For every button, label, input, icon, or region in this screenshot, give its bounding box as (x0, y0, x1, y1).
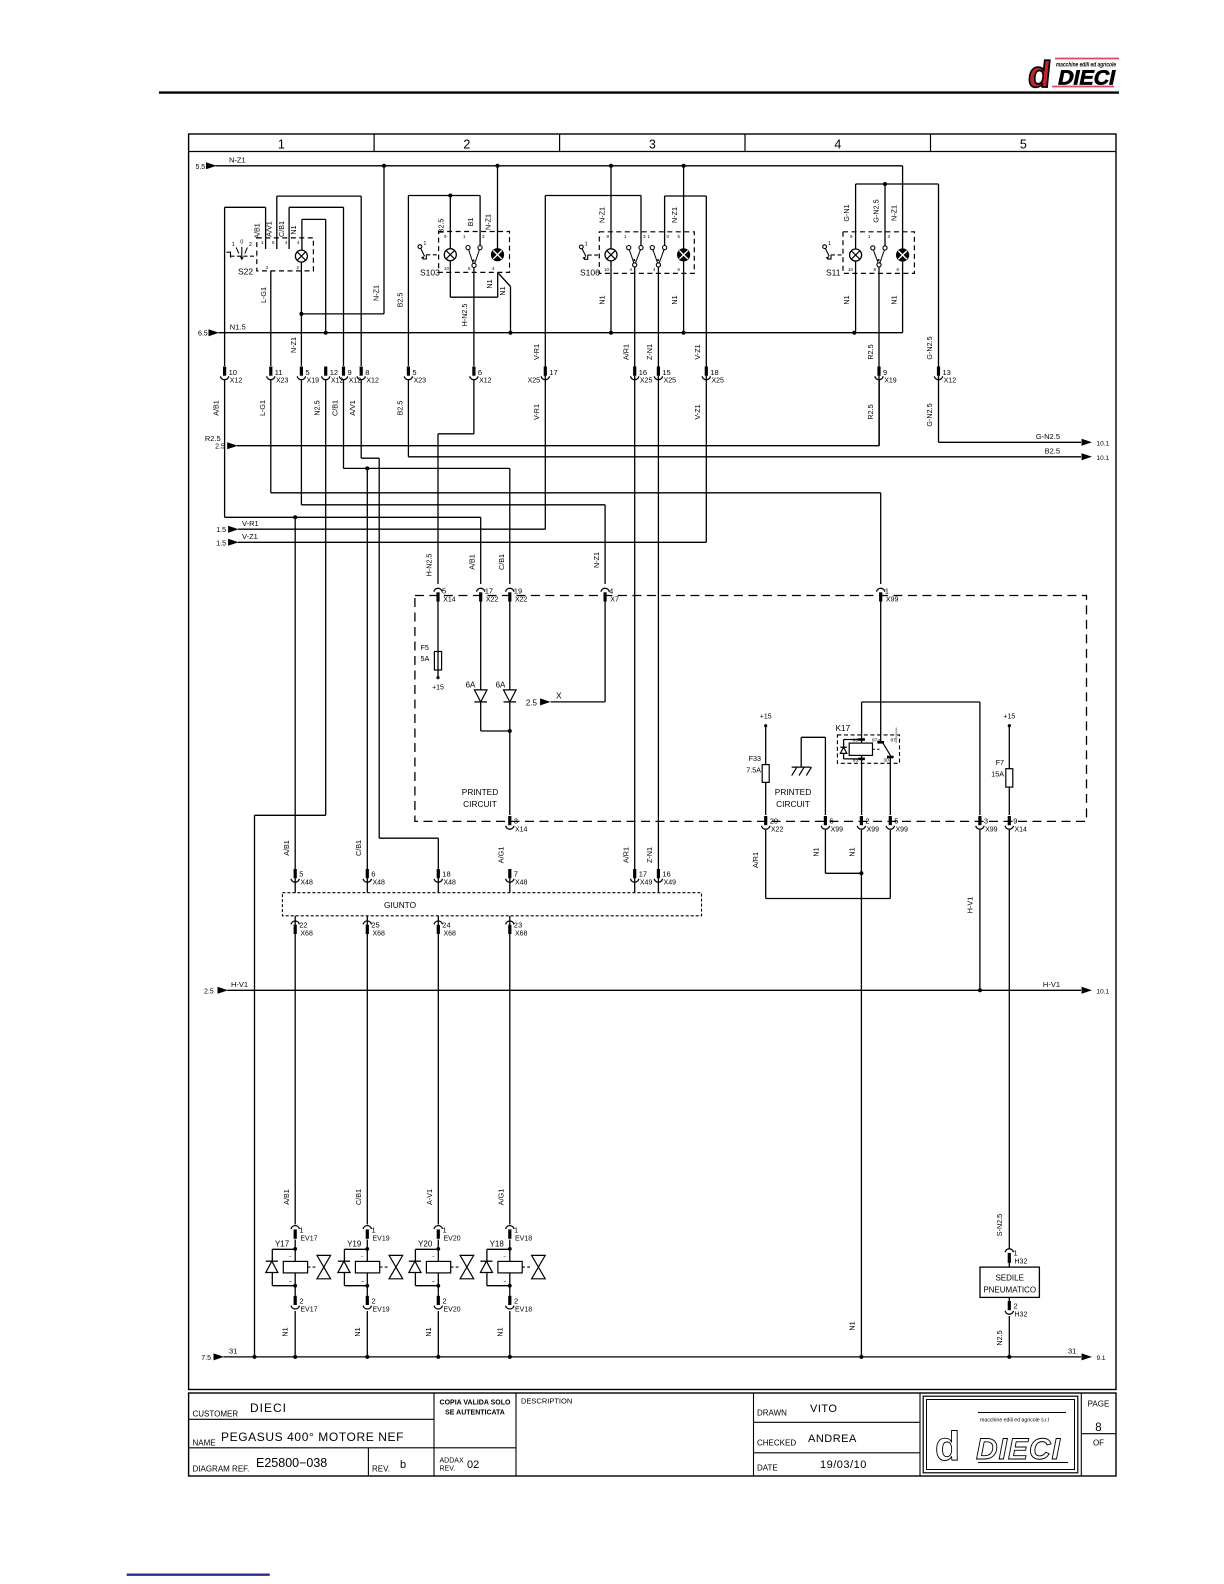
svg-text:X14: X14 (443, 597, 456, 604)
svg-text:N1: N1 (353, 1327, 362, 1336)
svg-text:SEDILE: SEDILE (995, 1273, 1023, 1282)
svg-text:X49: X49 (664, 880, 677, 887)
svg-text:6A: 6A (496, 681, 506, 690)
svg-text:B1: B1 (466, 218, 475, 227)
svg-text:A/B1: A/B1 (253, 223, 262, 239)
svg-text:17: 17 (549, 368, 557, 377)
changeover contact S11 (871, 246, 875, 250)
svg-text:DATE: DATE (757, 1464, 778, 1473)
title block addax cell (440, 1458, 480, 1473)
svg-text:−: − (503, 1254, 506, 1260)
svg-text:1: 1 (828, 241, 831, 247)
connector X68 pin 25 (GIUNTO bottom) (363, 916, 385, 938)
svg-text:N1: N1 (848, 847, 857, 856)
S103 toggle switch (418, 245, 422, 249)
node diode junction (508, 729, 512, 733)
connector EV19 pin 1 (363, 1226, 390, 1243)
svg-text:1: 1 (443, 1226, 447, 1235)
svg-text:1: 1 (1014, 1249, 1018, 1258)
svg-text:6A: 6A (466, 681, 476, 690)
wire N1 from S11 lamp1 (855, 261, 857, 333)
svg-text:1.5: 1.5 (216, 540, 226, 547)
wire C/B1 into diode (509, 602, 511, 690)
lamp in S106 (black) (678, 249, 690, 261)
svg-text:PEGASUS 400° MOTORE NEF: PEGASUS 400° MOTORE NEF (221, 1430, 404, 1444)
svg-text:9.1: 9.1 (1097, 1355, 1106, 1362)
svg-text:E25800−038: E25800−038 (256, 1456, 327, 1470)
svg-text:DESCRIPTION: DESCRIPTION (521, 1397, 572, 1406)
svg-text:B2.5: B2.5 (1045, 447, 1060, 456)
wire L-G1 mid (271, 380, 881, 584)
svg-text:X7: X7 (610, 597, 619, 604)
svg-text:X12: X12 (230, 378, 243, 385)
lamp in S103 (black) (492, 249, 504, 261)
switch S106 dashed box (599, 232, 694, 274)
svg-text:ANDREA: ANDREA (808, 1433, 857, 1445)
svg-text:−: − (432, 1254, 435, 1260)
wire B2.5 mid (407, 380, 409, 457)
svg-text:Y19: Y19 (347, 1240, 362, 1249)
wire N-Z1 into S106 lamp1 (610, 166, 612, 249)
svg-text:6: 6 (371, 870, 375, 879)
svg-text:N1: N1 (498, 286, 507, 295)
svg-text:PRINTED: PRINTED (462, 787, 498, 797)
svg-text:Y20: Y20 (418, 1240, 433, 1249)
S11 toggle switch (823, 245, 827, 249)
svg-text:13: 13 (943, 368, 951, 377)
svg-text:N-Z1: N-Z1 (372, 285, 381, 301)
connector X12 pin 13 (934, 367, 956, 385)
svg-text:S22: S22 (238, 267, 253, 277)
node B2.5 S103 (448, 194, 452, 198)
svg-text:NAME: NAME (193, 1439, 216, 1448)
svg-text:2: 2 (443, 1297, 447, 1306)
node on N1.5 bus at S106 lamp2 (682, 331, 686, 335)
wire N-Z1 into S103 black lamp (497, 166, 499, 249)
svg-text:2: 2 (299, 1297, 303, 1306)
svg-text:+15: +15 (432, 685, 444, 692)
terminal +15 above F33 (760, 714, 772, 728)
svg-text:X68: X68 (444, 931, 457, 938)
svg-text:G-N2.5: G-N2.5 (925, 403, 934, 426)
connector X99 pin 5 (PC bottom) (886, 816, 908, 834)
ground (printed circuit) (792, 737, 826, 815)
svg-text:V-Z1: V-Z1 (693, 344, 702, 359)
svg-text:3: 3 (649, 138, 656, 152)
relay K17 flyback diode (840, 740, 861, 759)
wire N1 from EV20 to bus 31 (437, 1311, 439, 1357)
title block frame (189, 1393, 1116, 1476)
svg-text:Z-N1: Z-N1 (645, 847, 654, 863)
node N1 junction under relay (859, 871, 863, 875)
connector EV19 pin 2 (363, 1286, 390, 1314)
lamp in S11 (black) (897, 249, 909, 261)
svg-text:18: 18 (710, 368, 718, 377)
svg-text:V-R1: V-R1 (242, 519, 259, 528)
svg-text:R2.5: R2.5 (866, 404, 875, 419)
wire H-V1 X99-3 to bus (979, 830, 981, 990)
connector X49 pin 17 (GIUNTO top) (631, 869, 653, 893)
svg-text:N1.5: N1.5 (230, 323, 246, 332)
wire R2.5 from S11 contact (878, 268, 880, 446)
node on bus 31 at N2.5 sedile (1007, 1355, 1011, 1359)
svg-text:H-V1: H-V1 (231, 980, 248, 989)
svg-text:N1: N1 (495, 1327, 504, 1336)
svg-text:CUSTOMER: CUSTOMER (193, 1410, 239, 1419)
relay K17 pin numbers (853, 737, 897, 763)
switch S11 dashed box (843, 232, 914, 274)
svg-text:VITO: VITO (810, 1403, 837, 1415)
svg-text:X19: X19 (884, 378, 897, 385)
svg-text:Z-N1: Z-N1 (645, 344, 654, 360)
S22 pin numbers (261, 240, 300, 270)
wire N1 S103 lamps (450, 261, 510, 333)
svg-text:OF: OF (1093, 1439, 1104, 1448)
svg-text:16: 16 (662, 870, 670, 879)
svg-text:X19: X19 (307, 378, 320, 385)
svg-text:18: 18 (442, 870, 450, 879)
svg-text:PRINTED: PRINTED (775, 787, 811, 797)
svg-text:N-Z1: N-Z1 (289, 337, 298, 353)
svg-text:3: 3 (514, 817, 518, 826)
svg-text:N1: N1 (812, 847, 821, 856)
title block DIECI logo (923, 1396, 1078, 1473)
svg-text:2: 2 (463, 138, 470, 152)
svg-text:G-N2.5: G-N2.5 (925, 336, 934, 359)
svg-text:10.1: 10.1 (1097, 455, 1110, 462)
svg-text:N2.5: N2.5 (995, 1330, 1004, 1345)
wire Z-N1 from S106 contact2 (657, 268, 659, 870)
svg-text:86: 86 (853, 737, 859, 743)
svg-text:macchine edili ed agricole s.r: macchine edili ed agricole s.r.l (980, 1418, 1049, 1424)
wire L-G1 from S22 pin 3 (270, 271, 272, 366)
svg-text:1: 1 (278, 138, 285, 152)
wire N1 loop S22 (302, 219, 326, 332)
wire C/B1 loop S22 (289, 207, 343, 366)
svg-text:X48: X48 (300, 880, 313, 887)
connector X48 pin 5 (GIUNTO top) (291, 869, 313, 893)
svg-text:A/R1: A/R1 (751, 852, 760, 868)
diode 6A first (466, 681, 487, 702)
svg-text:A/R1: A/R1 (622, 847, 631, 863)
connector X22 pin 19 (PC top) (506, 587, 528, 604)
wire N1 from S106 lamp2 (683, 261, 685, 333)
changeover contact S106 second (650, 246, 654, 250)
svg-text:C/B1: C/B1 (354, 840, 363, 856)
changeover contact S106 first (627, 246, 631, 250)
svg-text:K17: K17 (836, 723, 851, 733)
svg-text:N-Z1: N-Z1 (229, 156, 246, 165)
svg-text:A/B1: A/B1 (282, 1189, 291, 1205)
svg-text:1: 1 (585, 241, 588, 247)
node on N1.5 bus at S22 (324, 331, 328, 335)
svg-text:EV20: EV20 (444, 1236, 461, 1243)
S106 pin numbers (604, 234, 681, 272)
DIECI logo (top right) (1026, 53, 1119, 95)
node on N-Z1 bus at S106 lamp1 (609, 164, 613, 168)
svg-text:5A: 5A (421, 654, 430, 663)
svg-text:DRAWN: DRAWN (757, 1409, 787, 1418)
svg-text:23: 23 (514, 921, 522, 930)
S11 pin numbers (848, 234, 900, 272)
svg-text:8: 8 (365, 368, 369, 377)
svg-text:4: 4 (834, 138, 841, 152)
wire X14-5 to F5 (437, 602, 439, 652)
svg-text:9: 9 (1013, 817, 1017, 826)
off-page arrow X (2.5) (526, 691, 562, 708)
svg-text:N-Z1: N-Z1 (890, 205, 899, 221)
svg-text:17: 17 (485, 587, 493, 596)
svg-text:N-Z1: N-Z1 (598, 207, 607, 223)
svg-text:N1: N1 (890, 295, 899, 304)
title block name cell (193, 1430, 405, 1448)
svg-text:X99: X99 (886, 597, 899, 604)
lamp in S103 (white) (444, 249, 456, 261)
svg-text:N1: N1 (281, 1327, 290, 1336)
bus V-R1 (1.5) (216, 519, 545, 534)
wire A/V1 loop S22 (277, 196, 361, 366)
connector X68 pin 23 (GIUNTO bottom) (506, 916, 528, 938)
svg-text:19/03/10: 19/03/10 (820, 1459, 867, 1471)
connector H32 pin 1 (1005, 1249, 1027, 1266)
wire G-N1 loop S11 (856, 184, 939, 249)
svg-text:10.1: 10.1 (1097, 988, 1110, 995)
S103 pin numbers (444, 234, 495, 271)
wire N2.5 from H32 to bus 31 (1008, 1316, 1010, 1357)
svg-text:+15: +15 (760, 714, 772, 721)
bus N1.5 (6.5) (198, 323, 903, 338)
wire N1 from EV19 to bus 31 (366, 1311, 368, 1357)
svg-text:2.5: 2.5 (526, 698, 538, 707)
svg-text:V-R1: V-R1 (532, 344, 541, 360)
svg-text:X25: X25 (640, 378, 653, 385)
svg-text:X99: X99 (867, 827, 880, 834)
svg-text:1: 1 (372, 1226, 376, 1235)
svg-text:H-N2.5: H-N2.5 (425, 554, 434, 577)
solenoid valve Y18 (480, 1240, 545, 1288)
svg-text:2.5: 2.5 (215, 444, 225, 451)
label PRINTED CIRCUIT left (462, 787, 498, 809)
svg-text:N-Z1: N-Z1 (484, 214, 493, 230)
wire A/B1 into diode (480, 602, 482, 690)
node on bus 31 at N1 relay (859, 1355, 863, 1359)
svg-text:X14: X14 (515, 827, 528, 834)
svg-text:X22: X22 (486, 597, 499, 604)
connector EV17 pin 1 (291, 1226, 318, 1243)
svg-text:0: 0 (240, 240, 243, 246)
wire N1 from S106 lamp1 (610, 261, 612, 333)
svg-text:8: 8 (1095, 1422, 1101, 1434)
switch S103 dashed box (439, 232, 510, 273)
svg-text:X12: X12 (349, 378, 362, 385)
connector X25 pin 17 (528, 367, 558, 385)
connector EV20 pin 1 (434, 1226, 461, 1243)
svg-text:L-G1: L-G1 (258, 400, 267, 416)
connector X14 pin 9 (PC bottom) (1005, 816, 1027, 834)
wire G-N2.5 from S11 loop (938, 184, 940, 442)
node A/B1 branch (293, 515, 297, 519)
svg-text:30: 30 (884, 758, 890, 764)
wire S-N2.5 X14-9 to seat (1008, 830, 1010, 1249)
svg-text:5: 5 (412, 368, 416, 377)
svg-text:C/B1: C/B1 (331, 400, 340, 416)
lamp in S22 (295, 250, 307, 262)
drawing frame (189, 134, 1116, 1390)
svg-text:85: 85 (853, 758, 859, 764)
svg-text:X99: X99 (896, 827, 909, 834)
title block customer cell (193, 1401, 288, 1419)
wire N-Z1 to X arrow (551, 602, 606, 702)
svg-text:COPIA VALIDA SOLO: COPIA VALIDA SOLO (440, 1400, 511, 1407)
node G-N2.5 S11 (883, 182, 887, 186)
svg-text:H-V1: H-V1 (1043, 980, 1060, 989)
node on bus 31 at EV20 (436, 1355, 440, 1359)
svg-text:V-Z1: V-Z1 (693, 404, 702, 419)
connector X68 pin 22 (GIUNTO bottom) (291, 916, 313, 938)
svg-text:H-V1: H-V1 (966, 897, 975, 913)
svg-text:R2.5: R2.5 (205, 434, 221, 443)
svg-text:A/B1: A/B1 (468, 554, 477, 570)
svg-text:F5: F5 (421, 643, 429, 652)
wire A/V1 mid (361, 380, 438, 869)
node C/B1 branch (365, 466, 369, 470)
svg-text:DIECI: DIECI (250, 1401, 287, 1415)
svg-text:B2.5: B2.5 (437, 219, 446, 234)
wire A/B1 to valve Y17 (294, 934, 296, 1225)
svg-text:C/B1: C/B1 (497, 554, 506, 570)
wire N-Z1 corner into S11 lamp2 (902, 166, 904, 249)
svg-text:1: 1 (232, 242, 235, 248)
connector EV18 pin 1 (506, 1226, 533, 1243)
svg-text:5.5: 5.5 (195, 164, 205, 171)
node on N-Z1 bus at S22 (382, 164, 386, 168)
svg-text:G-N2.5: G-N2.5 (872, 199, 881, 222)
bus N-Z1 (5.5) (195, 156, 902, 171)
connector X25 pin 16 (631, 367, 653, 385)
svg-text:7: 7 (514, 870, 518, 879)
bus V-Z1 (1.5) (216, 532, 706, 547)
title block date cell (757, 1459, 867, 1473)
svg-text:REV.: REV. (440, 1466, 456, 1473)
svg-text:EV17: EV17 (300, 1307, 317, 1314)
fuse F33 7.5A (746, 726, 769, 815)
connector X7 pin 4 (PC top) (601, 587, 619, 604)
svg-text:X23: X23 (414, 378, 427, 385)
terminal +15 under F5 (432, 676, 444, 692)
svg-text:+15: +15 (1003, 714, 1015, 721)
connector X12 pin 9 (339, 367, 361, 385)
connector X25 pin 18 (702, 367, 724, 385)
svg-text:17: 17 (639, 870, 647, 879)
connector X12 pin 6 (470, 367, 492, 385)
svg-text:DIAGRAM REF.: DIAGRAM REF. (193, 1465, 250, 1474)
node on N-Z1 bus at S103 (496, 164, 500, 168)
wire diode1 to C/B1 junction (481, 702, 510, 731)
connector X23 pin 11 (267, 367, 289, 385)
svg-text:EV20: EV20 (444, 1307, 461, 1314)
wire B2.5 loop S103 (408, 196, 480, 367)
seat SEDILE PNEUMATICO box (980, 1263, 1039, 1298)
svg-text:4: 4 (609, 587, 613, 596)
terminal +15 above F7 (1003, 714, 1015, 728)
svg-text:1.5: 1.5 (216, 527, 226, 534)
bus R2.5 (2.5) (205, 434, 879, 451)
wire R2.5 riser (878, 380, 880, 446)
svg-text:b: b (400, 1459, 406, 1471)
title block copia cell (440, 1400, 511, 1417)
svg-text:V-R1: V-R1 (532, 404, 541, 420)
connector H32 pin 2 (1005, 1297, 1027, 1318)
svg-text:A/B1: A/B1 (282, 840, 291, 856)
svg-text:X12: X12 (331, 378, 344, 385)
svg-text:Y18: Y18 (490, 1240, 505, 1249)
solenoid valve Y17 (266, 1240, 331, 1288)
changeover contact S103 (466, 246, 470, 250)
wire C/B1 mid (344, 380, 510, 869)
svg-text:5: 5 (894, 817, 898, 826)
wire N-Z1 from S22 lamp (301, 166, 384, 366)
node on N1.5 bus at S106 lamp1 (609, 331, 613, 335)
svg-text:X68: X68 (300, 931, 313, 938)
lamp in S106 (white) (605, 249, 617, 261)
svg-text:Y17: Y17 (275, 1240, 290, 1249)
connector X22 pin 20 (PC bottom) (762, 816, 784, 834)
svg-text:G-N1: G-N1 (842, 204, 851, 221)
svg-text:5: 5 (1020, 138, 1027, 152)
svg-text:19: 19 (514, 587, 522, 596)
connector X19 pin 5 (297, 367, 319, 385)
solenoid valve Y20 (409, 1240, 474, 1288)
wire H-N2.5 from S103 contact (473, 268, 475, 367)
wire N2.5 mid (255, 380, 326, 1357)
svg-text:F33: F33 (749, 754, 761, 763)
svg-text:N1: N1 (842, 295, 851, 304)
svg-text:B2.5: B2.5 (396, 293, 405, 308)
wire A-V1 to valve Y20 (437, 934, 439, 1225)
svg-text:31: 31 (1068, 1347, 1076, 1356)
svg-text:SE AUTENTICATA: SE AUTENTICATA (445, 1410, 505, 1417)
wire G-N2.5 to 10.1 (939, 432, 1110, 447)
svg-text:N2.5: N2.5 (313, 400, 322, 415)
node on N-Z1 bus at S106 lamp2 (682, 164, 686, 168)
svg-text:N1: N1 (598, 295, 607, 304)
svg-text:6: 6 (478, 368, 482, 377)
svg-text:A/G1: A/G1 (496, 847, 505, 863)
svg-text:10.1: 10.1 (1097, 440, 1110, 447)
wire A/B1 mid (225, 380, 481, 869)
S106 toggle switch (579, 245, 583, 249)
svg-text:X25: X25 (528, 378, 541, 385)
connector X48 pin 7 (GIUNTO top) (506, 869, 528, 893)
fuse F5 5A (421, 643, 442, 678)
svg-text:2: 2 (865, 817, 869, 826)
wire A/R1 from S106 contact1 (634, 268, 636, 870)
title block checked cell (757, 1433, 857, 1448)
svg-text:2: 2 (514, 1297, 518, 1306)
svg-text:L-G1: L-G1 (259, 287, 268, 303)
connector X49 pin 16 (GIUNTO top) (654, 869, 676, 893)
node on bus 31 at EV19 (365, 1355, 369, 1359)
svg-text:N1: N1 (289, 225, 298, 234)
relay K17 contact (873, 602, 897, 816)
svg-text:X12: X12 (366, 378, 379, 385)
svg-text:N-Z1: N-Z1 (670, 207, 679, 223)
relay K17 coil wires (862, 702, 980, 815)
title block drawn cell (757, 1403, 837, 1418)
svg-text:11: 11 (275, 368, 283, 377)
svg-text:~: ~ (289, 1279, 292, 1285)
svg-text:CHECKED: CHECKED (757, 1439, 796, 1448)
